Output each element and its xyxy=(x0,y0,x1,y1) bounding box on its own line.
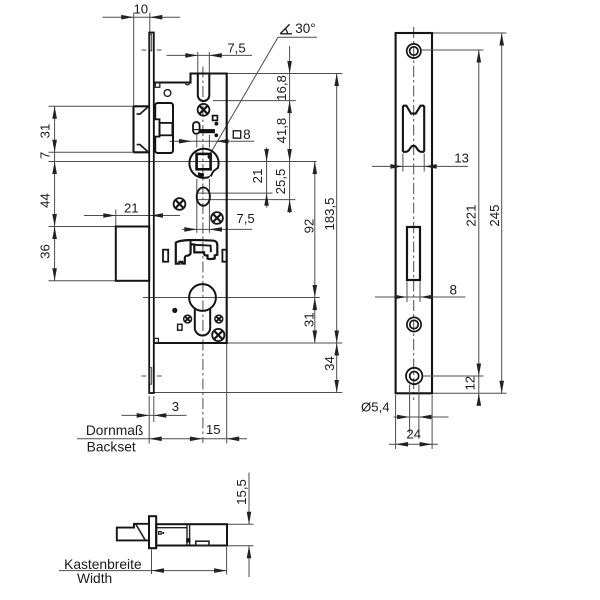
svg-text:8: 8 xyxy=(450,283,458,298)
svg-text:13: 13 xyxy=(454,150,469,165)
svg-text:24: 24 xyxy=(406,427,421,442)
svg-text:92: 92 xyxy=(301,219,316,234)
svg-text:Ø5,4: Ø5,4 xyxy=(361,400,390,415)
svg-text:12: 12 xyxy=(462,376,477,391)
svg-text:44: 44 xyxy=(38,193,53,208)
svg-text:16,8: 16,8 xyxy=(274,75,289,101)
svg-text:41,8: 41,8 xyxy=(274,118,289,144)
svg-text:Backset: Backset xyxy=(87,439,136,454)
svg-text:31: 31 xyxy=(38,124,53,139)
svg-text:21: 21 xyxy=(250,169,265,184)
svg-text:21: 21 xyxy=(124,201,139,216)
svg-text:30°: 30° xyxy=(295,21,315,36)
svg-text:7,5: 7,5 xyxy=(236,211,254,226)
svg-text:10: 10 xyxy=(133,2,148,17)
svg-text:Width: Width xyxy=(77,571,112,586)
svg-text:221: 221 xyxy=(464,205,479,227)
svg-text:15: 15 xyxy=(206,422,221,437)
svg-text:3: 3 xyxy=(172,399,179,414)
svg-text:36: 36 xyxy=(38,244,53,259)
svg-text:34: 34 xyxy=(322,356,337,371)
svg-text:245: 245 xyxy=(487,205,502,227)
svg-text:Kastenbreite: Kastenbreite xyxy=(64,557,142,572)
svg-text:7: 7 xyxy=(38,152,53,159)
svg-text:Dornmaß: Dornmaß xyxy=(86,423,144,438)
svg-text:8: 8 xyxy=(243,127,251,142)
svg-text:25,5: 25,5 xyxy=(273,169,288,195)
svg-text:31: 31 xyxy=(301,312,316,327)
svg-text:15,5: 15,5 xyxy=(234,479,249,505)
svg-text:7,5: 7,5 xyxy=(227,41,245,56)
svg-text:183,5: 183,5 xyxy=(322,197,337,230)
